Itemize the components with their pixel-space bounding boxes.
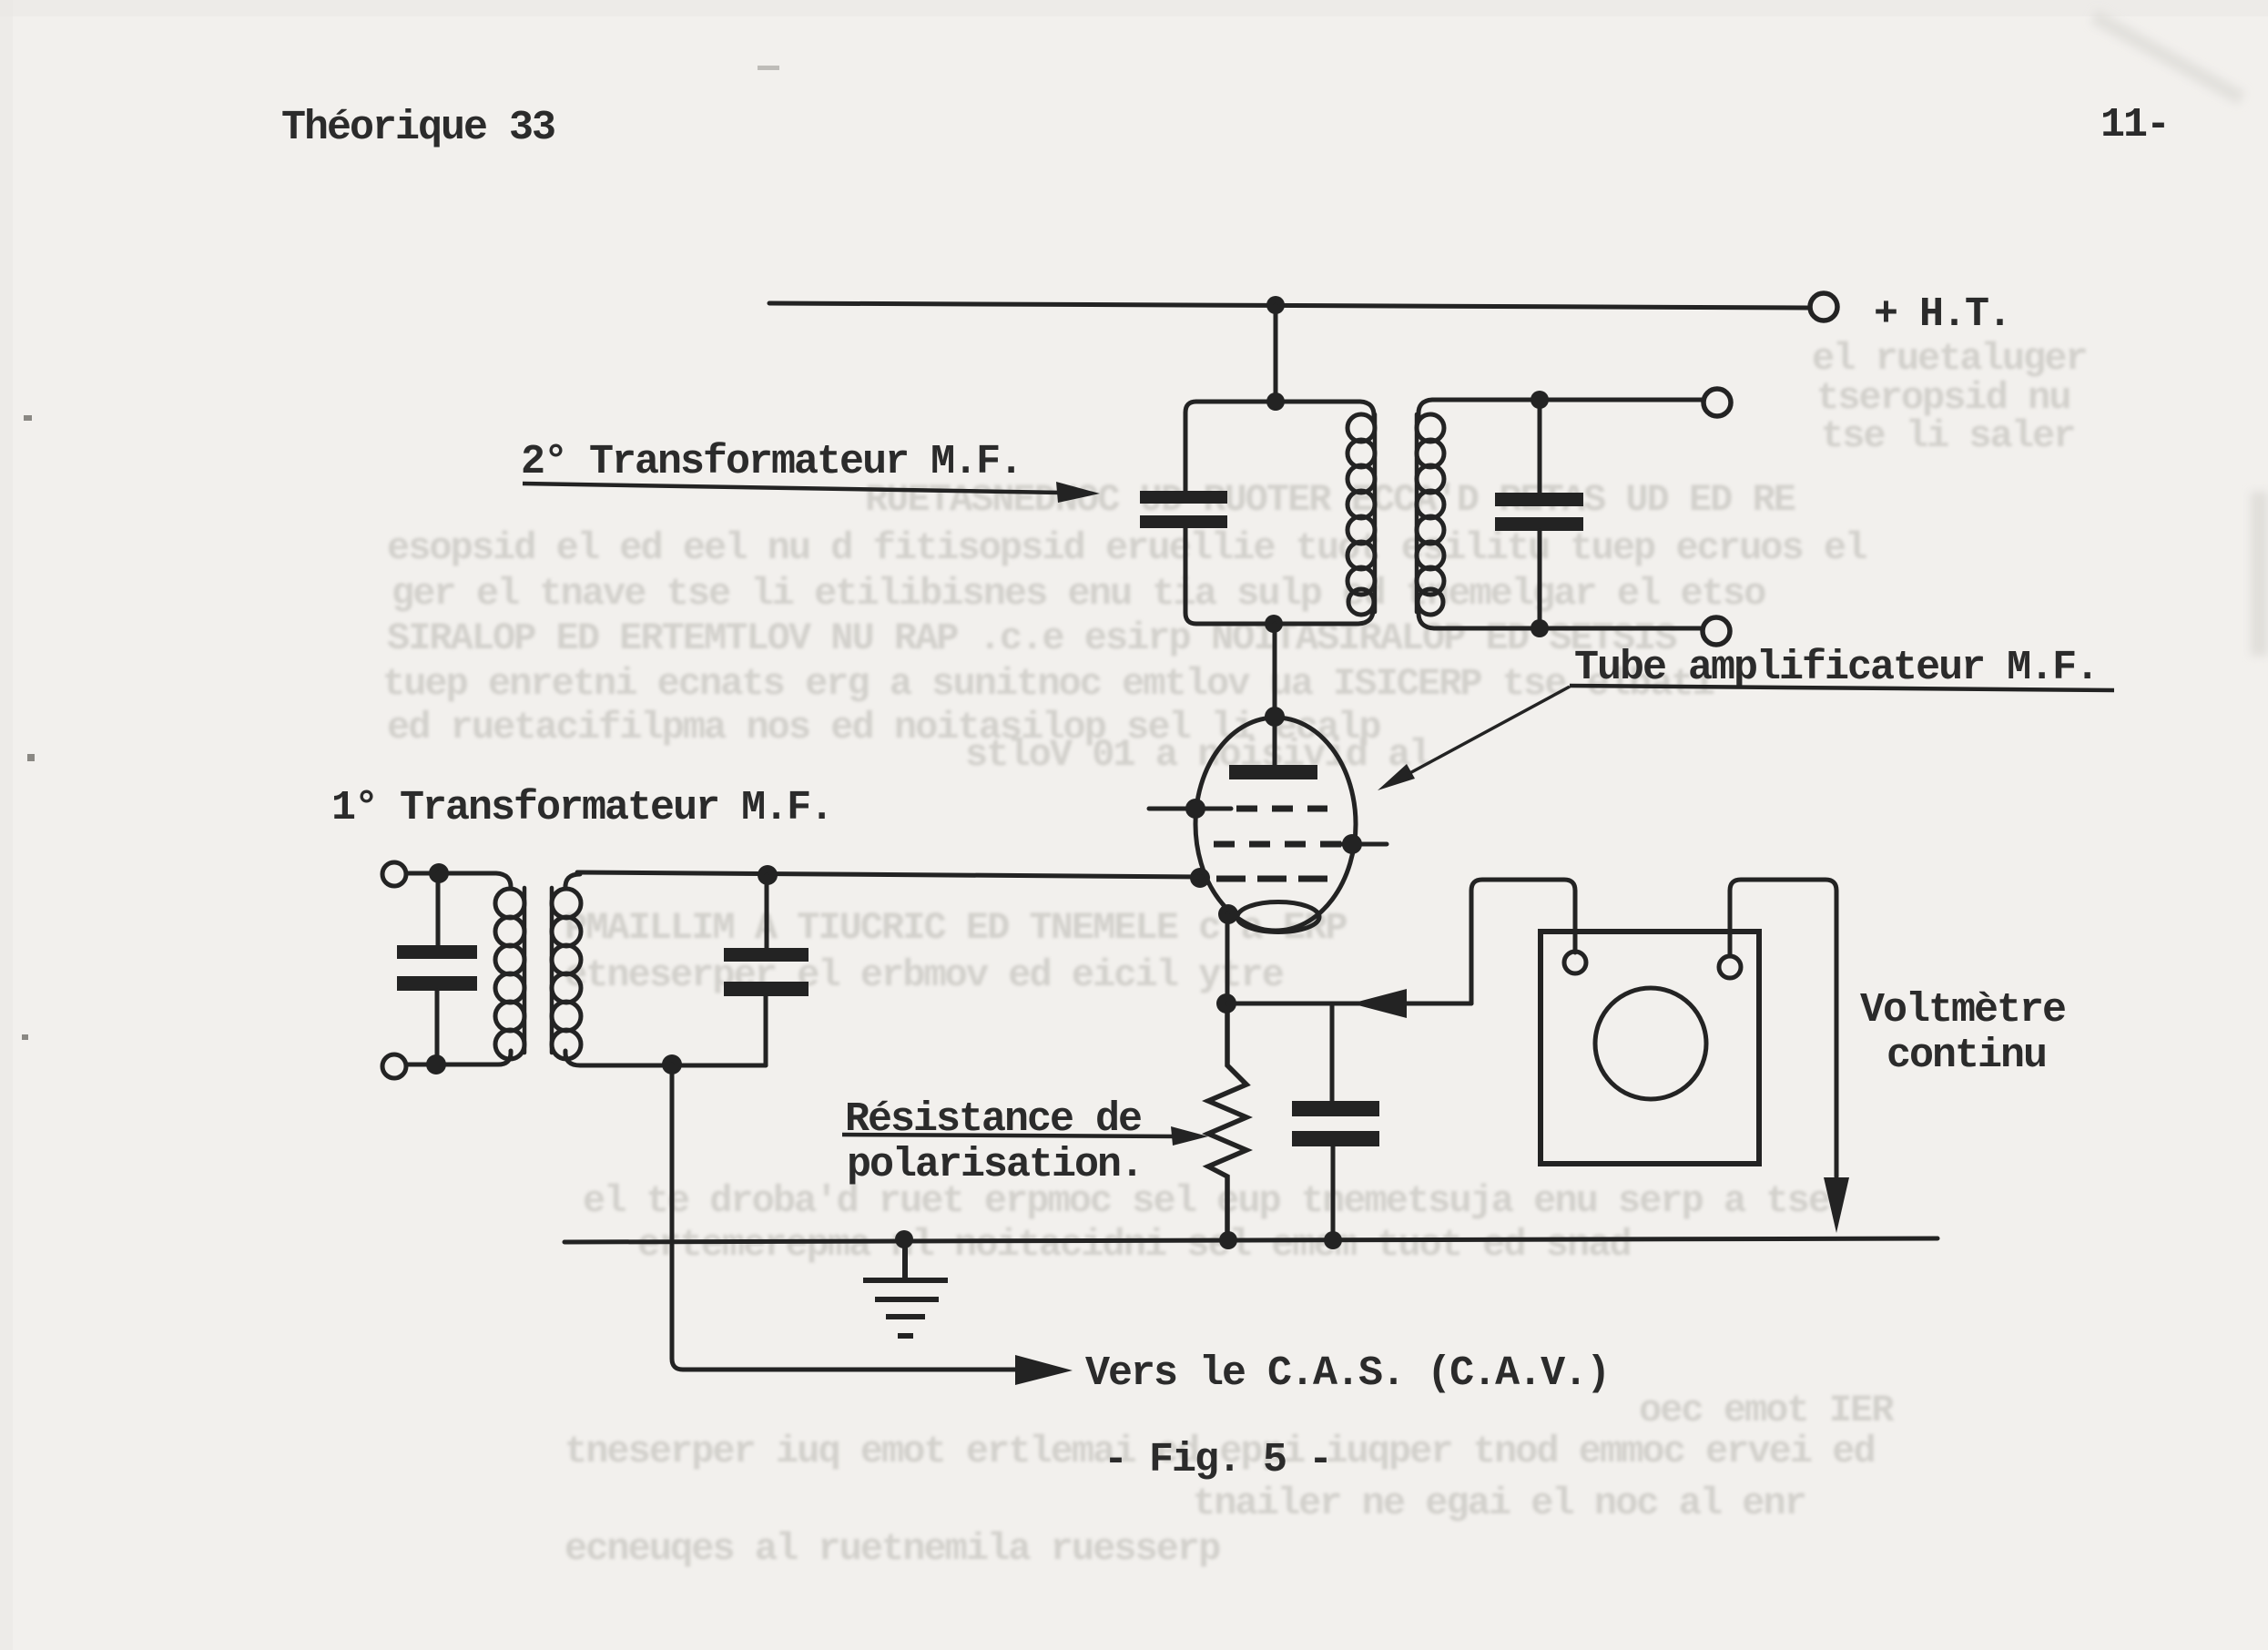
- terminal + H.T.: [1810, 293, 1837, 321]
- svg-text:oec emot IER: oec emot IER: [1639, 1389, 1895, 1432]
- svg-text:tse li saler: tse li saler: [1821, 414, 2074, 458]
- wire: C2a bottom to rail: [1185, 528, 1196, 624]
- wire: C1a top stub: [436, 873, 441, 945]
- node: C3 to bus: [1324, 1231, 1342, 1249]
- node: T1 primary bottom junction: [426, 1054, 446, 1075]
- node: CAS take-off junction: [662, 1054, 682, 1075]
- svg-text:tnailer ne egai el noc al: tnailer ne egai el noc al enr: [1193, 1482, 1805, 1525]
- wire: voltmeter right terminal to bus: [1730, 880, 1836, 1176]
- arrow: tube label leader: [1393, 687, 1570, 782]
- wire: C2b bottom stub: [1538, 531, 1542, 628]
- transformer T1 secondary: top hook: [565, 874, 580, 889]
- resistor R1 (bias resistor): [1208, 1003, 1246, 1239]
- wire: cathode net to voltmeter left terminal: [1471, 880, 1575, 1003]
- inductor L2a: T2 primary coil: [1348, 414, 1375, 615]
- wire: +H.T. supply rail: [769, 303, 1807, 308]
- svg-text:tuep enretni ecnats erg a suni: tuep enretni ecnats erg a sunitnoc emtlo…: [382, 662, 1714, 706]
- svg-text:ger el tnave tse li etilibisne: ger el tnave tse li etilibisnes enu tia …: [392, 572, 1765, 616]
- voltmeter M1 case: [1541, 932, 1759, 1164]
- wire: C1a bottom stub: [435, 991, 440, 1064]
- wire: junction down to T2 primary top: [1274, 305, 1278, 403]
- transformer T2 primary tank: top rail: [1196, 402, 1374, 417]
- wire: C3 top stub: [1330, 1003, 1335, 1101]
- ground bus: [564, 1238, 1937, 1242]
- svg-text:ertemerepma nl noitacidni s: ertemerepma nl noitacidni sel emem tuot …: [637, 1223, 1631, 1267]
- wire: G2 lead right: [1325, 842, 1387, 847]
- node: T1 primary top junction: [429, 863, 449, 883]
- terminal: voltmeter right: [1719, 956, 1741, 978]
- svg-text:etneserper el erbmov ed ei: etneserper el erbmov ed eicil ytre: [564, 953, 1284, 997]
- capacitor C1a plates: [397, 945, 477, 991]
- bleed-through text from reverse page: [382, 337, 2087, 1571]
- transformer T1 primary: top rail: [394, 873, 511, 889]
- svg-text:+ H.T.: + H.T.: [1874, 291, 2010, 338]
- terminal: T1 primary bottom input: [382, 1054, 406, 1078]
- node: T2 primary top junction: [1266, 392, 1285, 411]
- node: H.T. junction: [1266, 296, 1285, 314]
- transformer T2 secondary: bottom rail: [1419, 613, 1702, 628]
- svg-text:Tube amplificateur M.F.: Tube amplificateur M.F.: [1574, 645, 2098, 691]
- node: T2 primary bottom junction: [1265, 615, 1283, 633]
- node: tube top (anode lead): [1265, 707, 1285, 727]
- arrowhead: to CAS: [1015, 1355, 1073, 1385]
- node: T2 secondary top junction: [1531, 391, 1549, 409]
- wire: T2 primary bottom to tube anode: [1273, 624, 1277, 772]
- node: G2 lead dot: [1342, 834, 1362, 854]
- wire: T2 primary left branch: [1185, 402, 1196, 491]
- wire: C1b bottom stub: [764, 996, 768, 1065]
- grid G3 of V1 (dashed): [1216, 876, 1331, 882]
- inductor L1b: T1 secondary coil: [552, 888, 581, 1059]
- inductor L2b: T2 secondary coil: [1417, 414, 1444, 615]
- terminal: voltmeter left: [1564, 952, 1586, 973]
- svg-text:esopsid el ed eel nu d fitisop: esopsid el ed eel nu d fitisopsid eruell…: [387, 526, 1866, 570]
- anode plate of V1: [1229, 765, 1317, 779]
- svg-text:tseropsid nu: tseropsid nu: [1816, 376, 2070, 420]
- node: cathode lead dot: [1218, 904, 1238, 924]
- transformer T1 primary: bottom rail: [394, 1051, 511, 1064]
- node: G3 lead dot: [1190, 868, 1210, 888]
- svg-text:continu: continu: [1887, 1033, 2046, 1079]
- wire: C3 bottom stub: [1331, 1146, 1336, 1240]
- voltmeter M1 dial: [1595, 988, 1706, 1099]
- svg-text:el te droba'd ruet erpmoc sel: el te droba'd ruet erpmoc sel eup tnemet…: [583, 1179, 1830, 1223]
- wire: cathode lead down: [1226, 914, 1230, 1003]
- node: G1 lead dot: [1185, 799, 1205, 819]
- svg-text:stloV 01 a noisivid al: stloV 01 a noisivid al: [965, 733, 1430, 777]
- capacitor C2b plates: [1495, 493, 1583, 531]
- svg-text:ecneuqes al ruetnemila rues: ecneuqes al ruetnemila ruesserp: [564, 1527, 1220, 1571]
- terminal: T2 secondary top output: [1704, 389, 1731, 416]
- capacitor C1b plates: [724, 948, 809, 996]
- svg-text:- Fig. 5 -: - Fig. 5 -: [1103, 1437, 1331, 1483]
- arrowhead: on cathode net pointing left: [1351, 989, 1407, 1018]
- cathode of V1: [1237, 902, 1319, 932]
- grid G1 of V1 (dashed): [1236, 806, 1327, 812]
- wire: cathode net horizontal: [1227, 1002, 1471, 1006]
- ground symbol: [863, 1239, 948, 1336]
- node: T1 secondary cap top junction: [758, 865, 778, 885]
- node: T2 secondary bottom junction: [1531, 619, 1549, 637]
- grid G2 of V1 (dashed): [1214, 841, 1345, 848]
- svg-text:polarisation.: polarisation.: [847, 1142, 1143, 1188]
- arrowhead: down to bus: [1824, 1177, 1849, 1233]
- terminal: T2 secondary bottom output: [1703, 617, 1730, 645]
- svg-text:el ruetaluger: el ruetaluger: [1812, 337, 2087, 381]
- wire: C1b top stub: [765, 875, 769, 948]
- capacitor C2a plates: [1140, 491, 1227, 528]
- arrow: 2nd transformer label arrow: [523, 484, 1062, 493]
- inductor L1a: T1 primary coil: [495, 888, 524, 1059]
- svg-text:1° Transformateur M.F.: 1° Transformateur M.F.: [331, 785, 832, 831]
- wire: CAS drop: [672, 1064, 1020, 1370]
- wire: C2b top stub: [1538, 400, 1542, 493]
- underline: tube label: [1570, 686, 2114, 690]
- svg-text:Voltmètre: Voltmètre: [1860, 987, 2065, 1034]
- wire: grid feed from T1 secondary to tube: [577, 872, 1202, 877]
- svg-text:Théorique 33: Théorique 33: [281, 105, 554, 151]
- transformer T2 secondary: top rail: [1419, 400, 1703, 415]
- node: ground symbol junction: [895, 1230, 913, 1248]
- capacitor C3 plates (cathode bypass): [1292, 1101, 1379, 1146]
- svg-text:2° Transformateur M.F.: 2° Transformateur M.F.: [521, 439, 1022, 485]
- svg-text:11-: 11-: [2100, 102, 2169, 148]
- wire: G1 lead left: [1149, 807, 1231, 811]
- transformer T1 secondary: bottom rail: [565, 1051, 766, 1065]
- tube V1 envelope: [1195, 718, 1356, 931]
- node: resistor to bus: [1219, 1231, 1237, 1249]
- svg-text:SIRALOP ED ERTEMTLOV NU RAP .c: SIRALOP ED ERTEMTLOV NU RAP .c.e esirp N…: [387, 616, 1676, 660]
- node: cathode net junction: [1216, 993, 1236, 1013]
- transformer T2 primary tank: bottom rail: [1196, 608, 1373, 624]
- specks: [22, 66, 779, 1040]
- svg-text:Vers le C.A.S. (C.A.V.): Vers le C.A.S. (C.A.V.): [1085, 1350, 1609, 1397]
- terminal: T1 primary top input: [382, 862, 406, 886]
- underline+arrow: resistance label: [842, 1135, 1179, 1136]
